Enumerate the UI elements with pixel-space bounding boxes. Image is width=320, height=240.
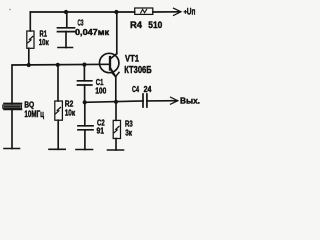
wire rail to +U arrow [153,11,180,13]
ground C2 [76,149,93,151]
svg-text:10к: 10к [39,37,50,47]
wire C2 top [84,102,86,126]
node output arrowhead [171,97,178,104]
wire R2 bottom [57,120,59,149]
svg-text:24: 24 [144,84,152,94]
wire collector [116,12,118,54]
svg-text:Вых.: Вых. [180,96,200,106]
wire base line [12,64,110,103]
ground BQ [4,148,20,150]
wire C1 top [83,65,85,81]
svg-text:С4: С4 [132,84,139,94]
wire C3 bottom [65,32,67,48]
wire emitter line [85,101,143,102]
svg-text:Uп: Uп [187,6,196,17]
node base junction C1 [82,63,86,67]
speck [9,9,11,11]
wire R3 top [115,102,117,121]
capacitor C3 [58,27,75,29]
capacitor C1 [78,80,92,82]
node emitter junction R3 [114,100,118,104]
wire C3 top [66,12,68,28]
svg-text:R4: R4 [130,20,143,31]
wire R1 top [29,12,31,31]
capacitor C4 [142,94,144,107]
wire R1 bottom [28,48,30,65]
node collector junction [114,10,118,14]
svg-text:10МГц: 10МГц [24,109,44,119]
wire R2 top [57,65,59,101]
node +U arrowhead [174,8,182,15]
svg-text:С3: С3 [78,17,84,27]
ground R3 [108,149,124,151]
transistor VT1 [100,53,119,72]
node emitter junction C1 [83,100,87,104]
wire emitter down [115,77,117,102]
svg-text:510: 510 [148,20,162,31]
ground C3 [58,47,73,49]
svg-text:BQ: BQ [24,99,34,109]
wire C4 to output [147,100,177,102]
svg-text:КТ306Б: КТ306Б [124,65,152,76]
resistor R4 [135,8,153,14]
wire C2 bottom [84,130,86,150]
resistor R1 [27,31,34,48]
capacitor C2 [78,125,93,127]
wire top rail [30,11,134,13]
svg-text:10к: 10к [65,108,76,118]
node base junction R2 [56,63,60,67]
node C3 top junction [64,10,68,14]
ground R2 [49,148,65,150]
resistor R3 [113,120,120,138]
wire C1 bottom [84,85,86,102]
wire BQ bottom [11,109,13,148]
node base junction R1 [27,63,31,67]
svg-text:100: 100 [95,85,106,95]
resistor R2 [55,101,63,120]
svg-text:91: 91 [97,125,105,135]
wire R3 bottom [115,139,117,151]
svg-text:VT1: VT1 [125,53,140,64]
crystal BQ [4,102,22,104]
svg-text:3к: 3к [125,128,132,138]
svg-text:0,047мк: 0,047мк [75,27,110,37]
